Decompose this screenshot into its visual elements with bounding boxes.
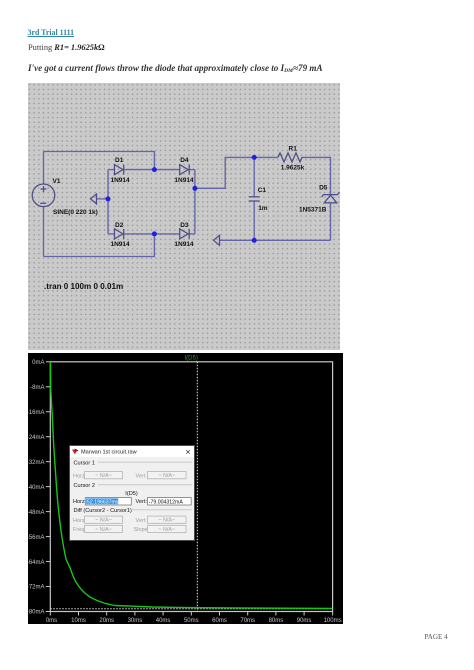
plot frame <box>50 361 332 611</box>
svg-text:60ms: 60ms <box>212 617 227 623</box>
row2 Horz field with selection <box>85 497 131 504</box>
svg-text:20ms: 20ms <box>99 617 114 623</box>
cursor dialog window <box>69 445 195 541</box>
resistor R1 <box>278 153 303 162</box>
wire right bridge vertical <box>194 170 196 234</box>
wire D2 cathode to node <box>124 233 155 235</box>
svg-text:1N914: 1N914 <box>174 177 194 184</box>
wire C1 top lead <box>253 157 255 196</box>
svg-text:~ N/A~: ~ N/A~ <box>95 473 112 479</box>
statement line <box>28 63 323 74</box>
svg-text:40ms: 40ms <box>156 617 171 623</box>
node A: D1-D4 junction <box>152 167 157 172</box>
schematic screenshot <box>28 83 340 350</box>
svg-text:~ N/A~: ~ N/A~ <box>158 473 175 479</box>
svg-text:Cursor 1: Cursor 1 <box>73 460 94 466</box>
wire bridge output to top rail <box>195 157 278 188</box>
svg-text:1N914: 1N914 <box>111 177 131 184</box>
svg-text:Cursor 2: Cursor 2 <box>73 483 94 489</box>
svg-text:1N914: 1N914 <box>174 241 194 248</box>
svg-text:D2: D2 <box>115 222 124 229</box>
svg-text:80ms: 80ms <box>269 617 284 623</box>
wire ground1 stub <box>97 198 109 200</box>
svg-text:-40mA: -40mA <box>28 484 45 490</box>
svg-text:1.9625k: 1.9625k <box>281 164 305 171</box>
svg-text:R1: R1 <box>289 146 298 153</box>
svg-text:-80mA: -80mA <box>28 609 45 615</box>
heading link <box>28 28 75 37</box>
cursor horizontal dashed line <box>50 607 332 609</box>
svg-text:V1: V1 <box>53 178 61 185</box>
row2 Vert field <box>147 497 191 504</box>
svg-text:0ms: 0ms <box>46 617 57 623</box>
svg-text:Horz: Horz <box>73 517 85 523</box>
svg-text:D3: D3 <box>180 222 189 229</box>
svg-text:10ms: 10ms <box>71 617 86 623</box>
svg-text:-64mA: -64mA <box>28 559 45 565</box>
x axis labels <box>46 617 342 623</box>
svg-text:100ms: 100ms <box>324 617 342 623</box>
ground bottom (return rail) <box>214 235 220 245</box>
wire bottom return rail <box>220 239 331 241</box>
svg-text:30ms: 30ms <box>128 617 143 623</box>
svg-text:~ N/A~: ~ N/A~ <box>95 526 112 532</box>
diode D3 <box>180 229 190 239</box>
svg-text:-8mA: -8mA <box>30 384 44 390</box>
svg-text:Vert: Vert <box>135 517 145 523</box>
wire node to D3 anode <box>154 233 179 235</box>
x axis ticks <box>50 611 332 615</box>
svg-text:Horz: Horz <box>73 473 85 479</box>
svg-text:~ N/A~: ~ N/A~ <box>158 526 175 532</box>
svg-text:-48mA: -48mA <box>28 509 45 515</box>
dialog frame <box>69 445 194 540</box>
row1 Vert field <box>147 471 186 478</box>
svg-text:I(D5): I(D5) <box>125 491 138 497</box>
svg-text:Horz:: Horz: <box>73 499 87 505</box>
svg-text:D5: D5 <box>319 185 328 192</box>
wire V1 bottom lead <box>43 207 45 257</box>
wire D2 anode stub <box>108 233 115 235</box>
svg-text:Vert:: Vert: <box>135 499 147 505</box>
wire R1 to D5 corner <box>303 157 331 194</box>
node B: D2-D3 junction <box>152 231 157 236</box>
node G: bridge left / ground <box>106 196 111 201</box>
diode D4 <box>180 165 190 175</box>
svg-text:.tran 0 100m 0 0.01m: .tran 0 100m 0 0.01m <box>44 282 123 291</box>
node C1 bottom junction <box>252 238 257 243</box>
svg-text:-16mA: -16mA <box>28 409 45 415</box>
diode D2 <box>115 229 124 239</box>
waveform plot <box>28 353 343 625</box>
svg-text:1m: 1m <box>258 205 268 212</box>
svg-text:-24mA: -24mA <box>28 434 45 440</box>
wire D1 anode stub <box>108 169 115 171</box>
subtitle line <box>28 43 105 52</box>
svg-text:SINE(0 220 1k): SINE(0 220 1k) <box>53 209 98 216</box>
svg-text:-32mA: -32mA <box>28 459 45 465</box>
page number <box>425 633 448 641</box>
wire D3 cathode stub <box>189 233 195 235</box>
wire bottom rail <box>44 234 155 257</box>
wire D5 anode lead <box>330 203 332 240</box>
row1 Horz field <box>84 471 122 478</box>
svg-text:52.196637ms: 52.196637ms <box>87 499 119 505</box>
svg-text:1N5371B: 1N5371B <box>299 207 327 214</box>
ground left (bridge center node) <box>91 194 97 204</box>
svg-text:✕: ✕ <box>185 449 191 456</box>
y axis labels <box>27 360 45 616</box>
svg-text:C1: C1 <box>258 187 267 194</box>
wire D1 cathode to node <box>124 169 155 171</box>
svg-text:-72mA: -72mA <box>28 584 45 590</box>
row3 Horz field <box>84 516 122 523</box>
wire V1 top lead <box>43 152 45 185</box>
svg-text:Marwan 1st circuit.raw: Marwan 1st circuit.raw <box>81 449 138 455</box>
svg-text:~ N/A~: ~ N/A~ <box>95 517 112 523</box>
cursor vertical dashed line <box>196 361 198 611</box>
wire C1 bottom lead <box>253 201 255 240</box>
node OUT: bridge right output <box>192 186 197 191</box>
y axis ticks <box>46 361 51 611</box>
wire left bridge vertical <box>107 170 109 234</box>
row4 Freq field <box>84 525 122 532</box>
svg-text:1N914: 1N914 <box>111 241 131 248</box>
row4 Slope field <box>147 525 186 532</box>
capacitor C1 <box>249 197 260 201</box>
svg-text:Freq: Freq <box>73 527 85 533</box>
svg-text:-79.004312mA: -79.004312mA <box>148 499 183 505</box>
node C1 top junction <box>252 155 257 160</box>
svg-text:0mA: 0mA <box>32 360 44 366</box>
wire node to D4 anode <box>154 169 179 171</box>
LTspice icon <box>72 448 79 454</box>
svg-text:70ms: 70ms <box>240 617 255 623</box>
zener diode D5 <box>322 192 340 203</box>
wire top rail <box>44 152 155 170</box>
svg-text:Slope: Slope <box>133 527 147 533</box>
wire D4 cathode stub <box>189 169 195 171</box>
svg-text:I(D5): I(D5) <box>185 355 198 361</box>
svg-text:~ N/A~: ~ N/A~ <box>158 517 175 523</box>
green current trace I(D5) <box>50 361 332 608</box>
voltage source V1 <box>32 184 55 207</box>
svg-text:90ms: 90ms <box>297 617 312 623</box>
diode D1 <box>115 165 124 175</box>
row3 Vert field <box>147 516 186 523</box>
svg-text:50ms: 50ms <box>184 617 199 623</box>
svg-text:D1: D1 <box>115 157 124 164</box>
svg-text:-56mA: -56mA <box>28 534 45 540</box>
title bar <box>70 446 194 457</box>
svg-text:Diff (Cursor2 - Cursor1): Diff (Cursor2 - Cursor1) <box>73 508 131 514</box>
svg-text:Vert: Vert <box>135 473 145 479</box>
svg-text:D4: D4 <box>180 157 189 164</box>
